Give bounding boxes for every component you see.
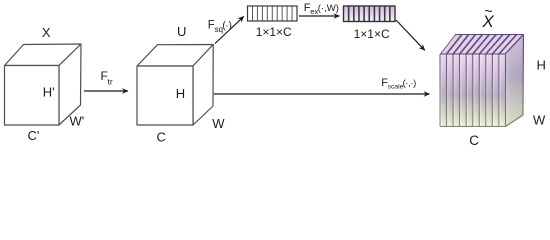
output block Xtilde: right side face	[506, 35, 524, 127]
output block slice edges	[440, 54, 506, 127]
label Fscale	[381, 77, 416, 91]
svg-text:X: X	[42, 25, 51, 40]
svg-text:W: W	[212, 116, 225, 131]
output block slice top faces	[441, 35, 523, 55]
svg-text:H: H	[537, 58, 546, 73]
arrow Fsq from cube U corner to squeeze bar	[215, 16, 244, 43]
svg-text:H: H	[176, 86, 185, 101]
output block top base (gaps between slabs)	[440, 35, 524, 55]
arrow Ftr	[84, 90, 128, 92]
squeeze bar 1x1xC (white)	[248, 6, 298, 21]
svg-text:1×1×C: 1×1×C	[256, 25, 292, 39]
svg-text:C: C	[469, 133, 479, 148]
svg-text:C': C'	[28, 128, 40, 143]
label Ftr	[101, 69, 113, 86]
output block outline edges	[440, 35, 524, 127]
output block front faces	[440, 54, 506, 127]
svg-text:C: C	[157, 130, 166, 145]
label Fsq	[208, 19, 232, 34]
svg-text:scale: scale	[388, 84, 404, 91]
svg-text:(·): (·)	[222, 20, 231, 31]
svg-text:W': W'	[70, 114, 85, 129]
svg-text:~: ~	[484, 3, 492, 19]
svg-text:U: U	[177, 24, 186, 39]
label Fex	[304, 2, 339, 16]
arrow Fex	[299, 15, 340, 17]
excitation bar 1x1xC (purple)	[344, 6, 396, 22]
svg-text:tr: tr	[108, 76, 113, 86]
arrow from excitation bar to output block	[396, 20, 425, 50]
svg-text:(·,W): (·,W)	[318, 3, 339, 14]
svg-text:(·,·): (·,·)	[403, 78, 417, 89]
output block cell shading	[440, 54, 506, 127]
cube U (feature map)	[137, 45, 213, 126]
svg-text:H': H'	[43, 85, 55, 100]
arrow Fscale	[214, 93, 430, 95]
output block side face highlight	[506, 35, 524, 127]
svg-text:1×1×C: 1×1×C	[354, 27, 390, 41]
svg-text:W: W	[533, 113, 546, 128]
cube X (input tensor)	[5, 44, 82, 125]
